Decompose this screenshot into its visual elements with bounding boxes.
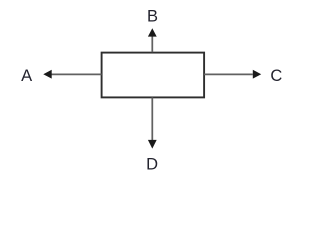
svg-text:C: C (270, 67, 282, 85)
svg-text:A: A (21, 67, 32, 85)
arrowhead right (253, 70, 261, 79)
svg-text:B: B (147, 8, 158, 26)
block rectangle (102, 53, 205, 98)
wire down (151, 97, 153, 140)
wire up (151, 36, 153, 52)
wire left (51, 73, 101, 75)
wire right (204, 73, 253, 75)
svg-text:D: D (146, 156, 158, 174)
arrowhead left (43, 70, 51, 79)
arrowhead down (148, 140, 157, 149)
arrowhead up (148, 28, 157, 36)
